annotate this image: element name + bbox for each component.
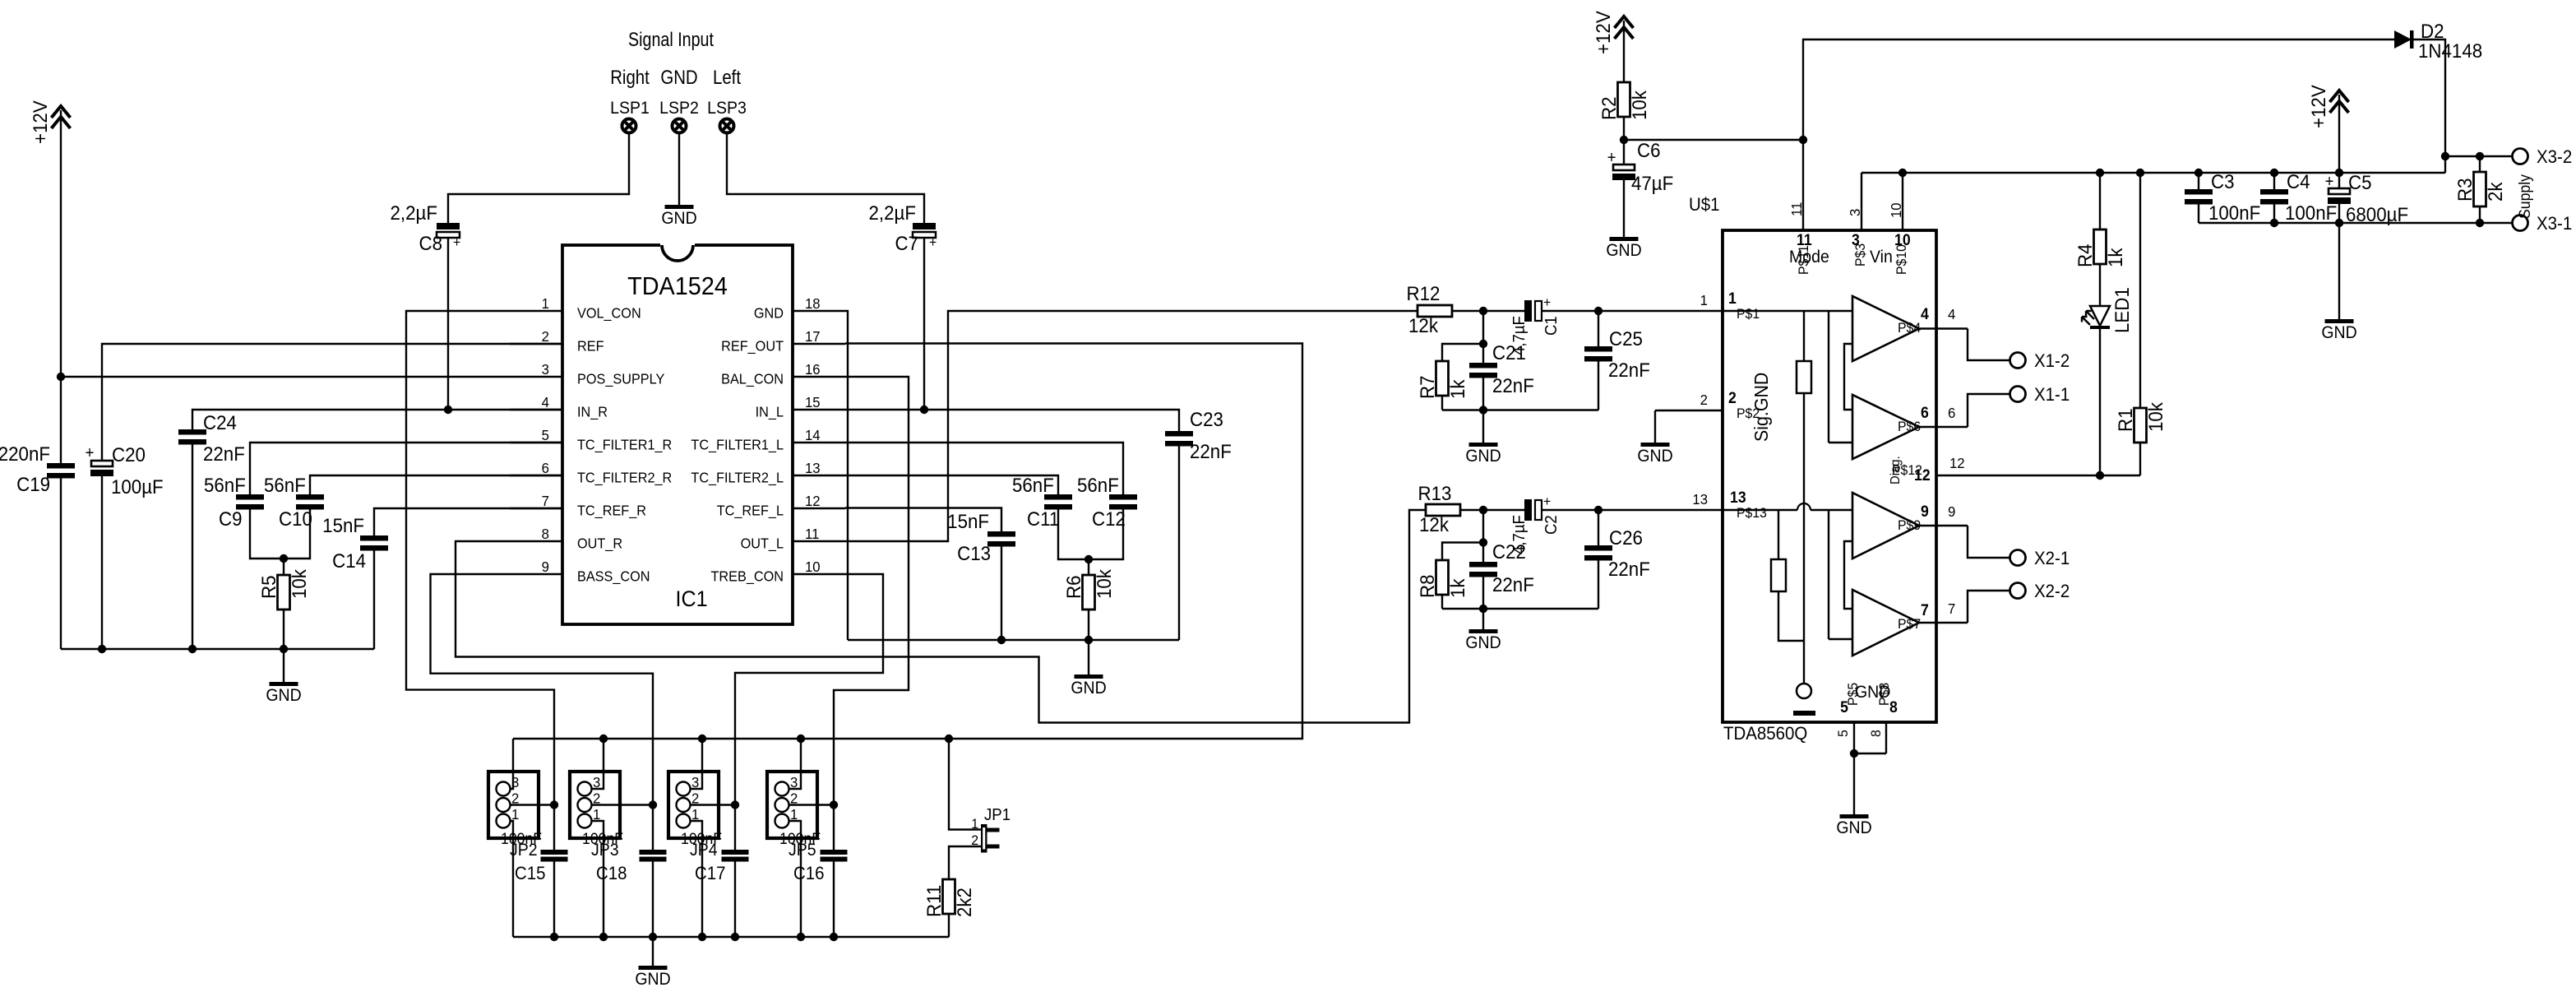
- wire D2 cathode down to X3-2: [2413, 39, 2445, 156]
- connector JP1: [981, 824, 987, 853]
- svg-text:GND: GND: [635, 970, 670, 989]
- op-amp U$1 TDA8560Q body: [1723, 230, 1936, 722]
- svg-text:R4: R4: [2074, 243, 2096, 267]
- svg-text:P$9: P$9: [1898, 518, 1921, 534]
- svg-text:7: 7: [1948, 600, 1955, 617]
- svg-text:TDA8560Q: TDA8560Q: [1723, 723, 1807, 744]
- amplifier A4: [1852, 590, 1919, 656]
- svg-text:10: 10: [1887, 202, 1904, 218]
- connector X3-1: [2513, 216, 2528, 231]
- ground (Sig.GND): [1654, 410, 1656, 443]
- svg-text:9: 9: [1948, 503, 1955, 520]
- wire C19 to ground rail: [60, 479, 62, 650]
- wire R7 top: [1442, 344, 1483, 361]
- svg-text:TDA1524: TDA1524: [627, 272, 728, 300]
- wire IN_R pin4 to C24: [192, 410, 562, 429]
- wire bottom ground rail: [513, 936, 949, 938]
- wire BASS_CON pin9 to JP3: [431, 574, 654, 850]
- svg-text:R6: R6: [1062, 575, 1085, 599]
- connector LSP3: [720, 119, 734, 133]
- svg-text:TC_FILTER2_L: TC_FILTER2_L: [691, 470, 784, 486]
- pin 16 IC1 BAL_CON: [793, 376, 845, 378]
- node R5 ground: [280, 645, 288, 653]
- wire junction to R7/C21: [1482, 311, 1484, 344]
- wire C8 to pin4: [447, 238, 449, 410]
- svg-text:Signal Input: Signal Input: [628, 28, 714, 50]
- wire C24 to ground rail: [192, 445, 193, 650]
- node R7 C21 top: [1479, 340, 1487, 348]
- node +12V / POS_SUPPLY junction: [57, 373, 65, 381]
- wire R8/C22/C26 ground rail: [1442, 608, 1598, 610]
- ground (bottom rail): [652, 937, 654, 966]
- wire C17 to bottom rail: [734, 862, 736, 938]
- node C5 ground rail: [2335, 219, 2343, 227]
- wire LED1 to Diag: [2099, 329, 2101, 475]
- wire C22 bottom: [1482, 577, 1484, 610]
- wire TREB_CON pin10 to JP4: [735, 574, 883, 850]
- resistor R5 10k: [278, 575, 290, 610]
- svg-text:TC_FILTER2_R: TC_FILTER2_R: [577, 470, 672, 486]
- svg-text:GND: GND: [754, 305, 784, 322]
- svg-text:22nF: 22nF: [1608, 359, 1650, 381]
- svg-text:4: 4: [1948, 305, 1956, 322]
- pin 1 IC1 VOL_CON: [510, 310, 562, 312]
- pin 4 IC1 IN_R: [510, 409, 562, 410]
- svg-text:1: 1: [542, 294, 549, 312]
- svg-text:GND: GND: [2321, 323, 2356, 342]
- node C8 on pin4 wire: [444, 406, 452, 414]
- svg-text:7: 7: [1921, 600, 1929, 619]
- svg-text:+12V: +12V: [1592, 11, 1614, 54]
- wire LSP1 to C8: [448, 133, 629, 223]
- wire +12V rail down to C19: [60, 110, 62, 463]
- capacitor C13 15nF: [987, 531, 1015, 537]
- svg-text:JP3: JP3: [591, 841, 619, 860]
- svg-text:C22: C22: [1492, 540, 1526, 563]
- svg-text:1k: 1k: [1446, 379, 1468, 399]
- node rail JP5 pin3: [797, 735, 805, 743]
- internal ground symbol: [1797, 684, 1811, 698]
- connector X3-2: [2513, 149, 2528, 165]
- svg-text:17: 17: [805, 327, 821, 345]
- svg-text:5: 5: [542, 426, 549, 443]
- svg-text:C10: C10: [279, 508, 312, 530]
- wire ground rail (C13 R6 C23): [848, 639, 1179, 641]
- svg-text:C19: C19: [16, 473, 50, 495]
- svg-text:18: 18: [805, 294, 821, 312]
- svg-text:C3: C3: [2211, 170, 2235, 192]
- svg-text:P$6: P$6: [1898, 420, 1921, 435]
- node cluster2 ground: [1479, 605, 1487, 613]
- wire C6 to ground: [1623, 180, 1625, 237]
- wire junction to R8/C22: [1482, 510, 1484, 543]
- svg-text:47µF: 47µF: [1631, 172, 1673, 194]
- svg-text:100nF: 100nF: [2208, 202, 2260, 224]
- wire TC_REF_R pin7 to C14: [374, 508, 562, 535]
- svg-text:Supply: Supply: [2515, 174, 2533, 219]
- capacitor C16 100nF: [821, 850, 848, 855]
- svg-text:C6: C6: [1637, 139, 1661, 161]
- wire JP4 pin3 to rail: [691, 739, 703, 789]
- svg-text:10k: 10k: [1093, 569, 1115, 599]
- capacitor C18 100nF: [640, 850, 667, 855]
- svg-text:C1: C1: [1542, 316, 1561, 336]
- capacitor C24 22nF: [178, 429, 206, 435]
- node bottom rail C18: [649, 933, 657, 941]
- svg-text:C8: C8: [419, 232, 442, 254]
- amplifier A1: [1852, 296, 1919, 361]
- wire R13 to C2: [1460, 509, 1524, 511]
- svg-text:+: +: [1607, 149, 1616, 167]
- node D2 X3-2: [2441, 152, 2449, 160]
- wire C14 to ground rail: [373, 551, 375, 650]
- capacitor C5 6800uF: [2338, 173, 2340, 188]
- node rail JP3 pin3: [599, 735, 608, 743]
- pin 2 IC1 REF: [510, 343, 562, 345]
- pin 10 IC1 TREB_CON: [793, 573, 845, 575]
- node R1 top: [2136, 169, 2144, 177]
- svg-text:P$8: P$8: [1877, 683, 1893, 706]
- svg-text:56nF: 56nF: [264, 474, 306, 496]
- connector X1-1: [2010, 387, 2026, 402]
- wire JP1 pin2 to R11: [949, 846, 981, 879]
- op-amp IC1 TDA1524 body: [562, 245, 793, 624]
- svg-text:2: 2: [1700, 391, 1708, 408]
- svg-text:4: 4: [542, 393, 550, 410]
- node JP5 pin2 / cap: [830, 800, 838, 809]
- wire C21 bottom: [1482, 378, 1484, 410]
- svg-text:R7: R7: [1416, 375, 1438, 399]
- wire C25 bottom: [1598, 362, 1599, 410]
- svg-text:3: 3: [1846, 209, 1863, 216]
- svg-text:Vin: Vin: [1870, 248, 1893, 267]
- wire R2 to C6: [1623, 117, 1625, 165]
- svg-text:1N4148: 1N4148: [2418, 39, 2482, 62]
- ground (supply): [2338, 223, 2340, 319]
- wire R5 to ground rail: [283, 610, 284, 649]
- svg-text:C12: C12: [1092, 508, 1126, 530]
- wire +12V to R2: [1623, 21, 1625, 82]
- node bottom rail JP3 pin1: [599, 933, 608, 941]
- connector X2-1: [2010, 550, 2026, 566]
- svg-text:15nF: 15nF: [947, 510, 989, 532]
- svg-text:100nF: 100nF: [2285, 202, 2337, 224]
- wire REF_OUT pin17 to JP rail: [513, 344, 1302, 739]
- resistor R8 1k: [1436, 560, 1449, 595]
- svg-text:C4: C4: [2287, 170, 2310, 192]
- svg-text:C7: C7: [895, 232, 918, 254]
- node bottom rail C17: [731, 933, 739, 941]
- wire R4 to LED1: [2099, 264, 2101, 306]
- connector X1-2: [2010, 353, 2026, 369]
- capacitor C2 4,7uF: [1524, 499, 1532, 521]
- svg-text:+: +: [1543, 295, 1551, 311]
- wire C16 to bottom rail: [833, 862, 835, 938]
- svg-text:X3-2: X3-2: [2537, 146, 2572, 167]
- capacitor C19 220nF: [47, 463, 75, 469]
- wire BAL_CON pin16 to JP5: [834, 377, 909, 850]
- svg-text:2,2µF: 2,2µF: [391, 202, 437, 224]
- pin 15 IC1 IN_L: [793, 409, 845, 410]
- svg-text:11: 11: [1787, 202, 1805, 216]
- wire TC_FILTER1_L pin14 to C12: [845, 443, 1123, 494]
- wire bridge A3-A4: [1844, 541, 1852, 609]
- wire C7 to pin15: [923, 238, 925, 410]
- svg-text:220nF: 220nF: [0, 443, 50, 465]
- svg-text:P$5: P$5: [1846, 683, 1861, 706]
- svg-text:6: 6: [1921, 403, 1929, 421]
- svg-text:REF: REF: [577, 338, 604, 355]
- LED LED1: [2090, 306, 2110, 326]
- svg-text:15nF: 15nF: [322, 514, 364, 536]
- svg-text:X2-1: X2-1: [2034, 548, 2070, 568]
- wire C9 C10 common to R5: [250, 510, 310, 559]
- svg-text:C24: C24: [203, 411, 237, 433]
- capacitor C26 22nF: [1598, 510, 1599, 545]
- wire C26 bottom: [1598, 561, 1599, 610]
- wire R6 to ground rail: [1088, 610, 1089, 640]
- wire R12 to C1: [1452, 310, 1524, 312]
- svg-text:P$1: P$1: [1737, 307, 1760, 322]
- wire Vin to X3-2 node: [2444, 156, 2446, 173]
- svg-text:P$7: P$7: [1898, 617, 1921, 633]
- ground (left rail): [283, 649, 284, 682]
- svg-text:C14: C14: [332, 549, 366, 572]
- svg-text:P$4: P$4: [1898, 321, 1921, 336]
- pin 12 IC1 TC_REF_L: [793, 508, 845, 509]
- wire JP5 pin3 to rail: [789, 739, 802, 789]
- wire JP3 pin3 to rail: [592, 739, 604, 789]
- resistor R4 1k: [2094, 229, 2107, 264]
- node C4 Vin: [2270, 169, 2278, 177]
- wire JP5 pin1 to bottom rail: [789, 821, 802, 937]
- wire C2 to U$1 pin13: [1542, 509, 1723, 511]
- wire JP3 pin1 to bottom rail: [592, 821, 604, 937]
- power +12V (right): [2330, 90, 2349, 113]
- svg-text:16: 16: [805, 360, 821, 378]
- wire C15 to bottom rail: [553, 862, 555, 938]
- svg-text:11: 11: [805, 525, 819, 542]
- svg-text:6: 6: [1948, 404, 1955, 421]
- capacitor C14 15nF: [360, 535, 388, 541]
- svg-text:R3: R3: [2453, 178, 2476, 202]
- wire C23 to ground rail: [1178, 447, 1180, 641]
- ground (LSP2): [665, 205, 694, 209]
- node R3 top: [2476, 152, 2484, 160]
- pin 13 IC1 TC_FILTER2_L: [793, 475, 845, 476]
- svg-text:BAL_CON: BAL_CON: [721, 371, 784, 387]
- svg-text:9: 9: [542, 558, 549, 575]
- svg-text:C23: C23: [1190, 408, 1223, 430]
- capacitor C3 100nF: [2198, 173, 2199, 189]
- node JP4 pin2 / cap: [731, 800, 739, 809]
- svg-text:C5: C5: [2348, 171, 2372, 193]
- svg-text:+: +: [2325, 173, 2334, 191]
- power +12V (middle): [1615, 16, 1634, 39]
- wire U$1 pin13 to amps: [1723, 509, 1797, 511]
- svg-text:Right: Right: [610, 66, 650, 88]
- node R13 C22 junction: [1479, 506, 1487, 514]
- wire C18 to bottom rail: [652, 862, 654, 938]
- connector LSP1: [622, 119, 636, 133]
- svg-text:P$11: P$11: [1797, 245, 1812, 275]
- pin 9 U$1 output: [1919, 525, 1968, 526]
- svg-text:Sig.GND: Sig.GND: [1750, 373, 1772, 442]
- svg-text:POS_SUPPLY: POS_SUPPLY: [577, 371, 664, 387]
- node bottom rail JP5 pin1: [797, 933, 805, 941]
- wire internal ground: [1803, 503, 1805, 684]
- svg-text:+12V: +12V: [2307, 85, 2329, 128]
- node pin10 Vin: [1898, 169, 1907, 177]
- capacitor C21 22nF: [1482, 344, 1484, 363]
- svg-text:2,2µF: 2,2µF: [869, 202, 916, 224]
- resistor R13 12k: [1426, 504, 1460, 516]
- svg-text:13: 13: [1730, 488, 1746, 506]
- svg-text:GND: GND: [1836, 818, 1871, 837]
- wire JP1 pin1 from rail: [949, 739, 981, 830]
- node R6 top: [1085, 555, 1093, 563]
- svg-text:C2: C2: [1542, 515, 1561, 535]
- svg-text:C25: C25: [1609, 327, 1643, 350]
- capacitor C4 100nF: [2273, 173, 2275, 189]
- wire Vin to R4: [2099, 173, 2101, 229]
- wire LSP2 to ground: [678, 133, 680, 205]
- wire REF pin2 to C20: [102, 344, 562, 461]
- svg-text:12: 12: [805, 492, 821, 509]
- svg-text:+: +: [929, 235, 937, 251]
- svg-text:R2: R2: [1598, 96, 1620, 120]
- connector JP3: [570, 772, 620, 838]
- pin 18 IC1 GND: [793, 310, 845, 312]
- wire X3-1 rail: [2199, 222, 2512, 224]
- capacitor C11 56nF: [1044, 494, 1072, 500]
- svg-text:C21: C21: [1492, 341, 1526, 364]
- wire C13 to ground rail: [1001, 547, 1002, 641]
- ground (R8 cluster): [1482, 609, 1484, 629]
- svg-text:IN_L: IN_L: [756, 404, 784, 420]
- svg-text:GND: GND: [1465, 447, 1501, 466]
- svg-text:P$13: P$13: [1737, 506, 1767, 521]
- wire OUT_L pin11 to R12: [845, 311, 1417, 541]
- svg-text:22nF: 22nF: [1608, 558, 1650, 580]
- svg-text:1: 1: [1700, 291, 1708, 308]
- svg-text:12: 12: [1949, 454, 1965, 471]
- wire R7/C21/C25 ground rail: [1442, 409, 1598, 410]
- node C25 junction: [1594, 307, 1602, 315]
- wire GND pin18 down: [845, 311, 848, 640]
- svg-text:C11: C11: [1027, 508, 1059, 530]
- svg-text:2k2: 2k2: [953, 888, 975, 917]
- node Mode pin wire: [1799, 136, 1807, 144]
- wire R7 bottom: [1441, 396, 1443, 410]
- svg-text:OUT_R: OUT_R: [577, 535, 622, 552]
- capacitor C15 100nF: [541, 850, 568, 855]
- wire X3-2 line: [2445, 155, 2512, 157]
- connector JP2: [488, 772, 539, 838]
- svg-text:56nF: 56nF: [1077, 474, 1119, 496]
- svg-text:X1-2: X1-2: [2034, 350, 2070, 371]
- node LED chain: [2096, 471, 2104, 480]
- wire bridge A1-A2: [1844, 344, 1852, 410]
- svg-text:4: 4: [1921, 304, 1930, 322]
- svg-text:C13: C13: [957, 542, 991, 564]
- svg-text:JP5: JP5: [789, 841, 816, 860]
- svg-text:X1-1: X1-1: [2034, 384, 2070, 405]
- wire C20 to ground rail: [101, 476, 103, 649]
- node C3 Vin: [2194, 169, 2203, 177]
- svg-text:1k: 1k: [1446, 578, 1468, 598]
- svg-text:R8: R8: [1416, 574, 1438, 598]
- svg-text:1: 1: [971, 817, 978, 832]
- svg-text:TC_REF_L: TC_REF_L: [717, 503, 784, 519]
- svg-text:LSP3: LSP3: [707, 99, 747, 118]
- svg-text:R11: R11: [923, 885, 945, 917]
- capacitor C10 56nF: [296, 494, 324, 500]
- pin 2 U$1 Sig.GND: [1655, 410, 1723, 411]
- pin 5 IC1 TC_FILTER1_R: [510, 442, 562, 443]
- amplifier A3: [1852, 493, 1919, 559]
- svg-text:1k: 1k: [2104, 248, 2126, 267]
- capacitor C25 22nF: [1598, 311, 1599, 346]
- node R12 C21 junction: [1479, 307, 1487, 315]
- capacitor C9 56nF: [236, 494, 264, 500]
- svg-text:JP4: JP4: [690, 841, 718, 860]
- ground (C6): [1610, 237, 1639, 241]
- pin 10 U$1: [1902, 173, 1903, 230]
- svg-text:8: 8: [542, 525, 549, 542]
- capacitor C12 56nF: [1109, 494, 1137, 500]
- svg-text:VOL_CON: VOL_CON: [577, 305, 641, 322]
- capacitor C8 2,2uF: [437, 223, 460, 229]
- resistor R6 10k: [1083, 575, 1095, 610]
- ground (U$1): [1853, 753, 1855, 814]
- svg-text:X2-2: X2-2: [2034, 581, 2070, 601]
- node R2 C6 Mode junction: [1620, 136, 1628, 144]
- svg-text:IN_R: IN_R: [577, 404, 608, 420]
- svg-text:100µF: 100µF: [111, 475, 164, 498]
- node R6 ground: [1085, 636, 1093, 644]
- wire JP2 pin2 stub: [511, 804, 555, 805]
- svg-text:15: 15: [805, 393, 821, 410]
- svg-text:22nF: 22nF: [1492, 573, 1534, 596]
- svg-text:JP1: JP1: [984, 806, 1011, 824]
- svg-text:9: 9: [1921, 502, 1929, 520]
- node cluster ground: [1479, 406, 1487, 414]
- svg-text:22nF: 22nF: [203, 443, 245, 465]
- svg-text:TREB_CON: TREB_CON: [711, 568, 784, 585]
- wire Vin to R1: [2139, 173, 2141, 408]
- svg-text:10k: 10k: [2144, 402, 2167, 432]
- wire C1 to U$1 pin1: [1542, 310, 1723, 312]
- svg-text:GND: GND: [661, 209, 696, 228]
- wire Vin rail: [1861, 172, 2445, 174]
- node R3 bottom: [2476, 219, 2484, 227]
- wire TC_FILTER2_L pin13 to C11: [845, 475, 1058, 494]
- svg-text:+: +: [1543, 494, 1551, 510]
- svg-text:LSP1: LSP1: [610, 99, 650, 118]
- svg-text:56nF: 56nF: [204, 474, 246, 496]
- svg-text:+12V: +12V: [29, 100, 51, 144]
- capacitor C23 22nF: [1165, 431, 1193, 437]
- svg-text:8: 8: [1869, 730, 1885, 737]
- svg-text:12k: 12k: [1419, 513, 1449, 535]
- connector JP4: [668, 772, 719, 838]
- svg-text:C17: C17: [695, 863, 726, 883]
- resistor R2 10k: [1618, 82, 1630, 117]
- wire VOL_CON pin1 to JP2: [406, 311, 554, 850]
- svg-text:GND: GND: [1071, 679, 1106, 698]
- svg-text:GND: GND: [1465, 633, 1501, 652]
